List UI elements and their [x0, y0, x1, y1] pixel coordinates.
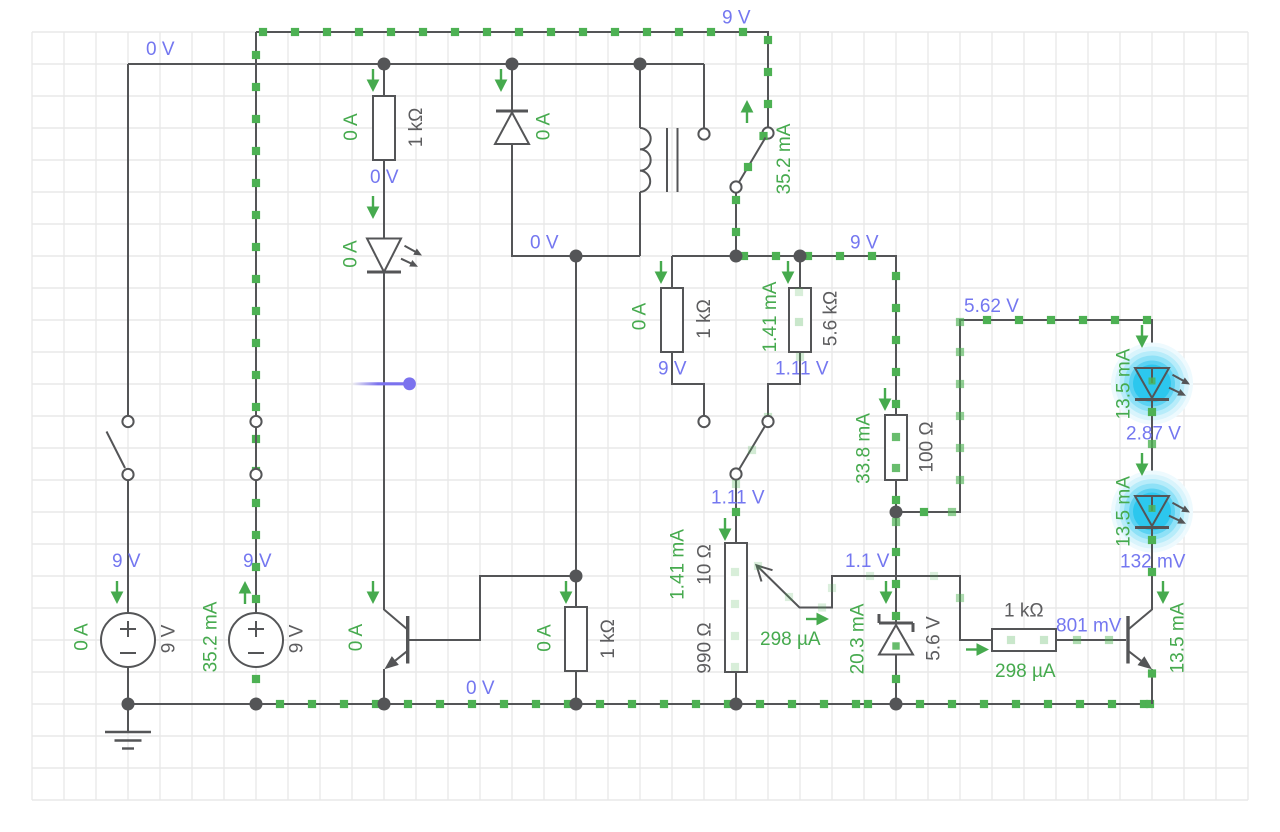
svg-text:10 Ω: 10 Ω	[695, 544, 716, 585]
arrow D1 current	[500, 69, 502, 82]
svg-text:0 A: 0 A	[346, 623, 367, 651]
switch S1 (open)	[107, 416, 134, 480]
svg-text:2.87 V: 2.87 V	[1126, 424, 1181, 445]
svg-text:9 V: 9 V	[159, 624, 180, 653]
wire battery V1 branch x=128	[127, 64, 129, 416]
relay switch blade	[739, 138, 766, 184]
S3 left contact	[698, 416, 709, 427]
relay core	[667, 128, 678, 192]
svg-text:0 A: 0 A	[341, 240, 362, 268]
wire node to LED chain with 5.62V	[896, 316, 1156, 516]
svg-text:0 A: 0 A	[535, 624, 556, 652]
junction node (576,576)	[570, 570, 583, 583]
svg-text:100 Ω: 100 Ω	[917, 421, 938, 472]
svg-text:9 V: 9 V	[287, 624, 308, 653]
svg-text:9 V: 9 V	[850, 233, 879, 254]
LED D3 (lit)	[1111, 343, 1193, 425]
svg-text:5.6 V: 5.6 V	[924, 616, 945, 661]
svg-text:13.5 mA: 13.5 mA	[1114, 476, 1135, 547]
wire battery V2 feed x=256 with current	[252, 32, 260, 683]
wire Q2 emitter to ground bus	[1148, 669, 1156, 704]
arrow R1 current	[372, 69, 374, 82]
arrow LED D2 current	[372, 196, 374, 209]
wire 9V mid to R3	[799, 256, 801, 288]
svg-text:9 V: 9 V	[112, 551, 141, 572]
junction node (256,704)	[250, 698, 263, 711]
junction node (736,256)	[730, 250, 743, 263]
svg-text:1 kΩ: 1 kΩ	[694, 299, 715, 339]
wire R7 to Q2 base	[1056, 636, 1126, 644]
wire R4 to ground bus	[575, 671, 577, 704]
svg-text:1 kΩ: 1 kΩ	[1004, 601, 1044, 622]
arrow V2 current up	[244, 591, 246, 604]
resistor R7 1k	[992, 629, 1056, 651]
arrow wiper current right	[806, 618, 819, 620]
arrow R2 current	[660, 261, 662, 274]
wire LED D4 to Q2 collector	[1148, 528, 1156, 610]
arrow R7 current right	[966, 648, 979, 650]
wire node to zener D5	[892, 512, 900, 623]
wire 9V dashed top rail (256,32)-(768,32)-(768,128)	[256, 28, 772, 128]
junction node (384,704)	[378, 698, 391, 711]
wire R1 to LED D2	[383, 160, 385, 238]
arrow relay current up	[746, 110, 748, 123]
S3 right contact	[762, 413, 773, 427]
arrow Q2 emitter current	[1162, 581, 1164, 594]
S3 common terminal	[730, 468, 741, 479]
svg-text:1 kΩ: 1 kΩ	[598, 619, 619, 659]
resistor R5 100ohm	[885, 415, 907, 480]
arrow LED D4 current	[1141, 453, 1143, 466]
junction node (128,704)	[122, 698, 135, 711]
resistor R4 1k	[565, 607, 587, 671]
junction node (640,64)	[634, 58, 647, 71]
wire top rail to diode D1	[511, 64, 513, 111]
svg-text:33.8 mA: 33.8 mA	[854, 413, 875, 484]
wire S3 common to potentiometer	[732, 480, 740, 543]
wire 9V mid to R2	[671, 256, 673, 288]
wire S1 to V1	[127, 480, 129, 613]
LED D4 (lit)	[1111, 471, 1193, 553]
wire net 9V mid (672,256)-(896,256)-(896,413)	[672, 252, 900, 415]
svg-text:1.1 V: 1.1 V	[845, 551, 890, 572]
wire D1 to 0V mid net	[512, 144, 640, 256]
arrow R5 current	[884, 388, 886, 401]
arrow potentiometer current	[724, 518, 726, 531]
svg-text:1.41 mA: 1.41 mA	[760, 281, 781, 352]
arrow Q1 collector current	[372, 581, 374, 594]
wire net 0V top rail (128,64)-(704,64)	[128, 63, 704, 65]
wire node to R4 branch x=576	[575, 256, 577, 576]
transistor Q2 NPN	[1128, 610, 1152, 670]
relay coil	[640, 64, 651, 256]
wire R3 to S3 right contact	[768, 352, 804, 416]
resistor R1 1k	[373, 96, 395, 160]
junction node (576,704)	[570, 698, 583, 711]
resistor R3 5.6k	[789, 288, 811, 352]
svg-text:0 V: 0 V	[530, 233, 559, 254]
svg-text:20.3 mA: 20.3 mA	[848, 603, 869, 674]
wire Q1 base to node (576,576)	[409, 576, 576, 640]
svg-text:132 mV: 132 mV	[1120, 552, 1186, 573]
svg-text:13.5 mA: 13.5 mA	[1114, 348, 1135, 419]
relay contact stub	[698, 64, 709, 140]
svg-text:0 V: 0 V	[466, 678, 495, 699]
junction node (384,64)	[378, 58, 391, 71]
svg-text:1.11 V: 1.11 V	[711, 488, 765, 509]
arrow R3 current	[787, 261, 789, 274]
svg-text:298 µA: 298 µA	[760, 629, 821, 650]
ground symbol	[105, 704, 151, 749]
relay switch pivot	[759, 127, 773, 140]
scope probe on LED branch	[352, 377, 416, 390]
wire relay common to 9V mid net	[732, 193, 740, 257]
svg-text:5.62 V: 5.62 V	[964, 296, 1019, 317]
wire R2 to S3 left contact	[672, 352, 704, 416]
ground bus wire y=704	[128, 700, 1154, 708]
wire R5 to node	[892, 480, 900, 512]
svg-text:5.6 kΩ: 5.6 kΩ	[821, 291, 842, 346]
wire zener to ground bus	[892, 655, 900, 705]
potentiometer R6 body	[725, 543, 747, 672]
transistor Q1 NPN	[384, 610, 408, 670]
wire LED D3 to LED D4	[1148, 400, 1156, 496]
wire pot bottom to ground bus	[735, 672, 737, 704]
svg-text:1.41 mA: 1.41 mA	[668, 529, 689, 600]
switch S3 blade	[739, 426, 765, 470]
arrow zener current	[885, 581, 887, 594]
svg-text:9 V: 9 V	[722, 8, 751, 29]
junction node (896,704)	[890, 698, 903, 711]
arrow R4 current	[565, 581, 567, 594]
wire Q1 emitter to ground bus	[383, 669, 385, 704]
voltage source V2 9V	[229, 613, 283, 667]
junction node (576,256)	[570, 250, 583, 263]
svg-text:1 kΩ: 1 kΩ	[406, 108, 427, 148]
svg-text:0 A: 0 A	[72, 623, 93, 651]
junction node (512,64)	[506, 58, 519, 71]
svg-text:35.2 mA: 35.2 mA	[201, 601, 222, 672]
junction node (896,512)	[890, 506, 903, 519]
svg-text:9 V: 9 V	[243, 551, 272, 572]
zener diode D5	[879, 614, 913, 655]
potentiometer wiper arrow and wire to R7	[754, 562, 992, 640]
svg-text:0 V: 0 V	[146, 39, 175, 60]
wire V1 to ground bus	[127, 667, 129, 704]
relay switch common terminal	[730, 181, 741, 192]
junction node (800,256)	[794, 250, 807, 263]
svg-text:13.5 mA: 13.5 mA	[1168, 602, 1189, 673]
resistor R2 1k	[661, 288, 683, 352]
svg-text:1.11 V: 1.11 V	[775, 359, 829, 380]
arrow V1 current	[116, 581, 118, 594]
diode D1	[495, 111, 529, 144]
svg-text:0 A: 0 A	[534, 112, 555, 140]
switch S2 (closed)	[250, 416, 261, 480]
svg-text:801 mV: 801 mV	[1056, 616, 1122, 637]
svg-text:0 A: 0 A	[630, 302, 651, 330]
wire node to R4	[575, 576, 577, 607]
svg-text:35.2 mA: 35.2 mA	[774, 123, 795, 194]
LED D2 (off)	[367, 239, 422, 273]
wire LED D2 to Q1 collector	[383, 273, 385, 610]
svg-text:0 A: 0 A	[341, 113, 362, 141]
voltage source V1 9V	[101, 613, 155, 667]
junction node (736,704)	[730, 698, 743, 711]
wire top rail to R1	[383, 64, 385, 96]
svg-text:298 µA: 298 µA	[995, 661, 1056, 682]
arrow LED D3 current	[1141, 325, 1143, 338]
svg-text:990 Ω: 990 Ω	[695, 622, 716, 673]
